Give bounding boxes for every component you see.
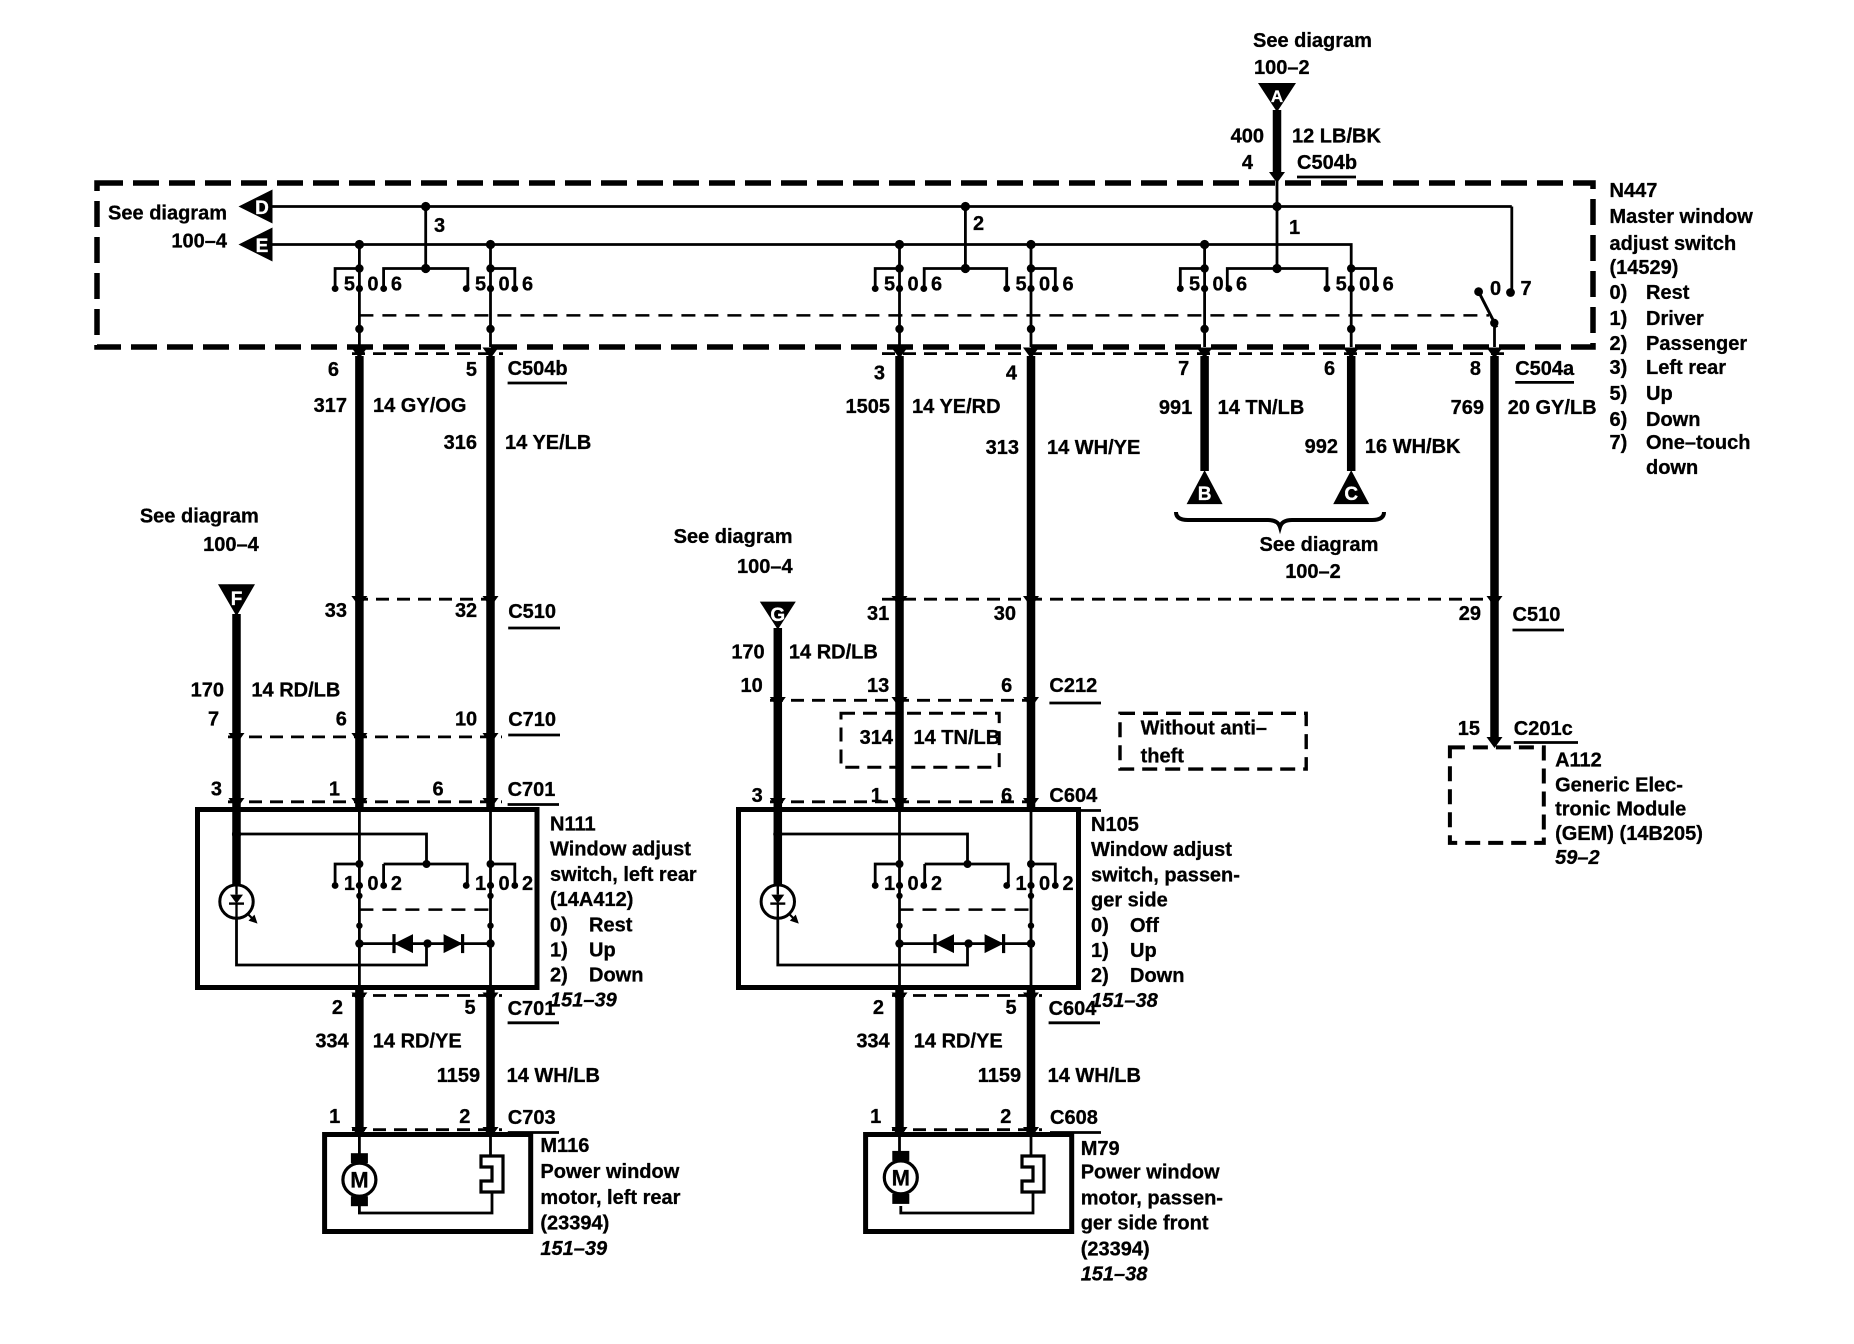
- svg-text:F: F: [231, 589, 243, 610]
- svg-text:ger side: ger side: [1091, 890, 1168, 912]
- svg-text:switch, passen-: switch, passen-: [1091, 864, 1240, 886]
- svg-text:6): 6): [1610, 409, 1628, 431]
- pin 10 C212: [741, 675, 763, 697]
- connector C604 label (top): [1049, 785, 1101, 811]
- svg-text:100–2: 100–2: [1285, 561, 1341, 583]
- svg-text:6: 6: [432, 779, 443, 801]
- svg-text:6: 6: [1324, 358, 1335, 380]
- note: see diagram 100-2 (top): [1253, 30, 1372, 79]
- power window motor M116 (box): [325, 1135, 531, 1232]
- feed wire 1 (driver): [1227, 202, 1327, 289]
- svg-text:C604: C604: [1049, 998, 1098, 1020]
- svg-text:1: 1: [329, 779, 340, 801]
- svg-text:2: 2: [1062, 873, 1073, 895]
- circuit breaker M79: [1022, 1135, 1044, 1193]
- svg-text:14 WH/YE: 14 WH/YE: [1047, 437, 1140, 459]
- svg-text:Power window: Power window: [540, 1161, 679, 1183]
- mechanical link N111 (dashed): [359, 908, 490, 911]
- svg-text:theft: theft: [1141, 746, 1185, 768]
- svg-text:151–39: 151–39: [540, 1238, 608, 1260]
- motor M79: [884, 1135, 917, 1204]
- label 1159 (right): [978, 1065, 1021, 1087]
- motor return wire M79: [901, 1192, 1033, 1213]
- svg-text:Power window: Power window: [1081, 1162, 1220, 1184]
- svg-text:5: 5: [1015, 274, 1026, 296]
- svg-text:Rest: Rest: [1646, 282, 1690, 304]
- label 14 RD/LB (G): [789, 641, 878, 663]
- svg-text:7): 7): [1610, 432, 1628, 454]
- svg-text:See diagram: See diagram: [1253, 30, 1372, 52]
- svg-text:0): 0): [1610, 282, 1628, 304]
- svg-text:2: 2: [522, 873, 533, 895]
- svg-text:D: D: [255, 198, 269, 219]
- pin 3 C604: [752, 785, 763, 807]
- svg-text:0): 0): [550, 914, 568, 936]
- label 1505: [846, 396, 891, 418]
- svg-text:14 RD/YE: 14 RD/YE: [373, 1030, 462, 1052]
- svg-text:0: 0: [367, 873, 378, 895]
- svg-text:14 RD/LB: 14 RD/LB: [789, 641, 878, 663]
- svg-text:14 WH/LB: 14 WH/LB: [1048, 1065, 1141, 1087]
- svg-text:N447: N447: [1610, 180, 1658, 202]
- svg-text:5: 5: [884, 274, 895, 296]
- connector C703 label: [508, 1107, 559, 1133]
- svg-text:5: 5: [1005, 997, 1016, 1019]
- diode pair N105: [895, 934, 1035, 953]
- svg-text:13: 13: [867, 675, 889, 697]
- label 2: [973, 213, 984, 235]
- svg-text:151–38: 151–38: [1081, 1264, 1149, 1286]
- lamp feed wire N111: [232, 829, 467, 885]
- svg-text:0: 0: [907, 274, 918, 296]
- svg-text:31: 31: [867, 603, 889, 625]
- svg-text:0: 0: [498, 873, 509, 895]
- svg-text:100–2: 100–2: [1254, 57, 1310, 79]
- pin 29 C510: [1459, 603, 1481, 625]
- connector C212 label: [1049, 675, 1101, 703]
- off-page connector D: [239, 190, 273, 224]
- svg-text:2: 2: [873, 997, 884, 1019]
- generic electronic module A112 (dashed box): [1450, 747, 1544, 843]
- svg-text:See diagram: See diagram: [674, 526, 793, 548]
- label 170 (F): [191, 679, 224, 701]
- connector C701 (top row): [228, 800, 502, 803]
- svg-text:C710: C710: [508, 709, 556, 731]
- connector C510 label (left): [508, 601, 560, 628]
- power window motor M79 (box): [866, 1135, 1072, 1232]
- svg-text:Without anti–: Without anti–: [1141, 718, 1267, 740]
- pin 4 of C504b: [1242, 152, 1254, 174]
- svg-text:1: 1: [344, 873, 355, 895]
- arrows into C608: [892, 1127, 1040, 1138]
- svg-text:100–4: 100–4: [737, 556, 793, 578]
- pin 1 C701: [329, 779, 340, 801]
- note: without anti-theft: [1120, 713, 1306, 769]
- svg-text:0: 0: [367, 274, 378, 296]
- svg-text:14 GY/OG: 14 GY/OG: [373, 395, 466, 417]
- label 1: [1289, 217, 1300, 239]
- label 991: [1159, 397, 1192, 419]
- arrows into C703: [351, 1127, 498, 1138]
- svg-text:0: 0: [907, 873, 918, 895]
- off-page connector B: [1187, 470, 1223, 505]
- svg-text:motor, left rear: motor, left rear: [540, 1187, 680, 1209]
- label 14 WH/LB (right): [1048, 1065, 1141, 1087]
- wire 400 12 LB/BK from A to C504b: [1269, 110, 1285, 269]
- svg-text:14 YE/LB: 14 YE/LB: [505, 432, 591, 454]
- svg-text:8: 8: [1470, 358, 1481, 380]
- arrows into C504a: [892, 348, 1503, 359]
- svg-text:Down: Down: [1130, 965, 1184, 987]
- svg-text:170: 170: [191, 679, 224, 701]
- svg-text:0): 0): [1091, 915, 1109, 937]
- master window adjust switch N447 (dashed enclosure): [97, 183, 1593, 347]
- svg-text:100–4: 100–4: [171, 231, 227, 253]
- switch S3 passenger (left): [872, 245, 942, 348]
- svg-text:2: 2: [1000, 1106, 1011, 1128]
- label 316: [444, 432, 477, 454]
- svg-text:2: 2: [332, 997, 343, 1019]
- junction dots on bus E: [355, 240, 1209, 249]
- svg-text:314: 314: [860, 727, 894, 749]
- wire 170 14 RD/LB (G to C212): [774, 628, 783, 700]
- connector C608 label: [1050, 1107, 1101, 1133]
- connector C701 (bottom row): [352, 994, 502, 997]
- svg-text:6: 6: [1001, 675, 1012, 697]
- connector C608 (row): [892, 1128, 1042, 1131]
- lamp return wire N105: [778, 918, 968, 965]
- connector C212 (row): [770, 699, 1040, 702]
- label 313: [986, 437, 1019, 459]
- svg-text:5: 5: [344, 274, 355, 296]
- svg-text:6: 6: [391, 274, 402, 296]
- feed wire 2 (passenger): [924, 202, 1007, 289]
- svg-text:M: M: [350, 1168, 368, 1193]
- svg-text:C504a: C504a: [1515, 358, 1575, 380]
- svg-text:1: 1: [870, 1106, 881, 1128]
- bus wire E (up/down common feed): [273, 245, 1352, 269]
- svg-text:(14A412): (14A412): [550, 889, 633, 911]
- svg-text:3: 3: [434, 215, 445, 237]
- connector C504a label: [1515, 358, 1575, 382]
- pin 6 C504b: [328, 359, 339, 381]
- svg-text:316: 316: [444, 432, 477, 454]
- connector C504b (top label): [1297, 152, 1357, 177]
- lamp (illumination) N105: [761, 885, 799, 924]
- svg-text:1: 1: [1289, 217, 1300, 239]
- svg-text:2): 2): [1091, 965, 1109, 987]
- arrows into C604 top: [770, 798, 1039, 809]
- svg-text:3): 3): [1610, 357, 1628, 379]
- label 12 LB/BK: [1292, 126, 1381, 148]
- svg-text:2: 2: [931, 873, 942, 895]
- svg-text:1): 1): [1091, 940, 1109, 962]
- wire 769 20 GY/LB to GEM: [1490, 356, 1499, 741]
- switch S1 left-rear-up/down (left): [332, 245, 402, 348]
- label 14 RD/YE (left): [373, 1030, 462, 1052]
- svg-text:Up: Up: [1646, 383, 1673, 405]
- svg-text:C510: C510: [508, 601, 556, 623]
- svg-text:C701: C701: [508, 779, 556, 801]
- arrow into GEM: [1487, 737, 1503, 748]
- pin 2 C703: [459, 1106, 470, 1128]
- connector C710 (row): [228, 736, 502, 739]
- svg-text:(23394): (23394): [1081, 1239, 1150, 1261]
- label 170 (G): [731, 641, 764, 663]
- svg-text:Generic Elec-: Generic Elec-: [1555, 774, 1683, 796]
- svg-text:(GEM) (14B205): (GEM) (14B205): [1555, 823, 1703, 845]
- svg-text:30: 30: [994, 603, 1016, 625]
- label 14 RD/LB (F): [251, 679, 340, 701]
- switch S4 passenger (right): [1003, 245, 1073, 348]
- svg-text:334: 334: [856, 1030, 890, 1052]
- connector C604 (bottom row): [892, 994, 1042, 997]
- svg-text:G: G: [770, 605, 785, 626]
- svg-text:1): 1): [550, 940, 568, 962]
- svg-text:6: 6: [931, 274, 942, 296]
- note: see diagram 100-4 (F): [140, 506, 260, 556]
- M116 text: [540, 1135, 680, 1260]
- svg-text:(23394): (23394): [540, 1213, 609, 1235]
- pin 1 C604: [871, 785, 882, 807]
- svg-text:5: 5: [464, 997, 475, 1019]
- label 992: [1305, 436, 1338, 458]
- feed wire 3 (left rear): [384, 202, 468, 289]
- svg-text:Window adjust: Window adjust: [550, 839, 691, 861]
- switch half N105 down: [1003, 810, 1073, 988]
- wire 170 14 RD/LB (F to C710): [232, 614, 241, 737]
- svg-text:7: 7: [1520, 278, 1531, 300]
- connector C510 (right segment): [882, 598, 1490, 601]
- svg-text:N111: N111: [550, 814, 596, 836]
- svg-text:C201c: C201c: [1514, 718, 1573, 740]
- svg-text:0: 0: [1359, 274, 1370, 296]
- pin 5 C604 bottom: [1005, 997, 1016, 1019]
- arrows into C504b: [351, 348, 498, 359]
- svg-text:14 TN/LB: 14 TN/LB: [914, 727, 1001, 749]
- off-page connector A: [1258, 83, 1296, 112]
- svg-text:C504b: C504b: [1297, 152, 1357, 174]
- svg-text:2: 2: [391, 873, 402, 895]
- svg-text:C: C: [1344, 484, 1358, 505]
- pin 4 C504a: [1006, 363, 1018, 385]
- switch S6 driver (right): [1324, 264, 1394, 347]
- M79 text: [1081, 1138, 1223, 1286]
- pin 31 C510: [867, 603, 889, 625]
- svg-text:6: 6: [1062, 274, 1073, 296]
- svg-text:2: 2: [973, 213, 984, 235]
- connector C604 label (bottom): [1049, 998, 1100, 1023]
- wire 992 16 WH/BK to C: [1347, 356, 1356, 471]
- pin 2 C604 bottom: [873, 997, 884, 1019]
- svg-text:5: 5: [466, 359, 477, 381]
- pin 30 C510: [994, 603, 1016, 625]
- window adjust switch N111 (box): [198, 810, 538, 988]
- svg-text:1): 1): [1610, 308, 1628, 330]
- svg-text:14 WH/LB: 14 WH/LB: [507, 1065, 600, 1087]
- pin 3 C504a: [874, 363, 885, 385]
- switch S5 driver (left): [1177, 245, 1247, 348]
- svg-text:170: 170: [731, 641, 764, 663]
- svg-text:1: 1: [329, 1106, 340, 1128]
- label circuit 314: [860, 727, 894, 749]
- svg-text:C212: C212: [1049, 675, 1097, 697]
- arrows into C510 left: [351, 596, 498, 607]
- pin 7 C710: [208, 709, 219, 731]
- switch half N111 down: [463, 810, 533, 988]
- connector C604 (top row): [770, 800, 1040, 803]
- label 14 WH/LB (left): [507, 1065, 600, 1087]
- svg-text:A112: A112: [1555, 749, 1602, 771]
- pin 10 C710: [455, 709, 477, 731]
- svg-text:Window adjust: Window adjust: [1091, 839, 1232, 861]
- pin 6 C504a: [1324, 358, 1335, 380]
- wire 314 14 TN/LB (without anti-theft) dashed box: [841, 713, 999, 767]
- svg-text:A: A: [1271, 87, 1283, 106]
- connector C510 (left segment): [355, 598, 502, 601]
- svg-text:1: 1: [884, 873, 895, 895]
- wire F C710 to N111: [232, 737, 241, 885]
- switch half N105 up: [872, 810, 942, 988]
- label 20 GY/LB: [1508, 397, 1597, 419]
- N447 legend text: [1610, 180, 1754, 479]
- connector C504b label: [508, 358, 568, 383]
- svg-text:15: 15: [1458, 718, 1480, 740]
- lamp return wire N111: [237, 918, 427, 965]
- pin 5 C701 bottom: [464, 997, 475, 1019]
- svg-text:14 RD/YE: 14 RD/YE: [914, 1030, 1003, 1052]
- svg-text:5: 5: [1189, 274, 1200, 296]
- svg-text:N105: N105: [1091, 814, 1139, 836]
- svg-text:400: 400: [1231, 126, 1264, 148]
- svg-text:100–4: 100–4: [203, 534, 259, 556]
- svg-text:7: 7: [1178, 358, 1189, 380]
- svg-text:Off: Off: [1130, 915, 1159, 937]
- svg-text:Driver: Driver: [1646, 308, 1704, 330]
- svg-text:1: 1: [1015, 873, 1026, 895]
- svg-text:3: 3: [752, 785, 763, 807]
- label circuit 400: [1231, 126, 1264, 148]
- svg-text:10: 10: [455, 709, 477, 731]
- svg-text:B: B: [1198, 484, 1212, 505]
- svg-text:2: 2: [459, 1106, 470, 1128]
- svg-text:Down: Down: [589, 965, 643, 987]
- pin 8 C504a: [1470, 358, 1481, 380]
- svg-text:ger side front: ger side front: [1081, 1213, 1209, 1235]
- motor return wire M116: [359, 1192, 492, 1213]
- N111 text: [550, 814, 697, 1012]
- svg-text:One–touch: One–touch: [1646, 432, 1750, 454]
- off-page connector C: [1333, 470, 1369, 505]
- svg-text:6: 6: [522, 274, 533, 296]
- svg-text:C703: C703: [508, 1107, 556, 1129]
- svg-text:6: 6: [1001, 785, 1012, 807]
- svg-text:M: M: [892, 1165, 910, 1190]
- label 14 YE/RD: [912, 396, 1001, 418]
- label 334 (left): [315, 1030, 349, 1052]
- pin 6 C710: [336, 709, 347, 731]
- pin 15 C201c: [1458, 718, 1480, 740]
- svg-text:Down: Down: [1646, 409, 1700, 431]
- svg-text:0: 0: [1039, 274, 1050, 296]
- label 16 WH/BK: [1365, 436, 1461, 458]
- svg-text:10: 10: [741, 675, 763, 697]
- one-touch-down switch: [1474, 207, 1515, 348]
- svg-text:C608: C608: [1050, 1107, 1098, 1129]
- label 769: [1451, 397, 1484, 419]
- A112 GEM text: [1555, 749, 1703, 869]
- svg-text:14 RD/LB: 14 RD/LB: [251, 679, 340, 701]
- label 3: [434, 215, 445, 237]
- motor M116: [343, 1135, 376, 1207]
- svg-text:14 TN/LB: 14 TN/LB: [1218, 397, 1305, 419]
- pin 7 C504a: [1178, 358, 1189, 380]
- svg-text:0: 0: [1213, 274, 1224, 296]
- lamp feed wire N105: [773, 829, 1008, 885]
- pin 6 C701: [432, 779, 443, 801]
- svg-text:M79: M79: [1081, 1138, 1120, 1160]
- svg-text:33: 33: [325, 600, 347, 622]
- wire G C212 to N105: [774, 700, 783, 885]
- pin 1 C703: [329, 1106, 340, 1128]
- svg-text:See diagram: See diagram: [140, 506, 259, 528]
- label 14 WH/YE: [1047, 437, 1140, 459]
- connector C504b (row): [352, 352, 503, 355]
- svg-text:switch, left rear: switch, left rear: [550, 864, 697, 886]
- svg-text:5: 5: [475, 274, 486, 296]
- connector C703 (row): [352, 1128, 502, 1131]
- svg-text:334: 334: [315, 1030, 349, 1052]
- switch S2 left-rear (right): [463, 245, 533, 348]
- bus wire D (driver/one-touch feed): [273, 205, 1512, 208]
- svg-text:Up: Up: [1130, 940, 1157, 962]
- svg-text:4: 4: [1242, 152, 1254, 174]
- wire N105 pin2 to motor: [895, 988, 904, 1135]
- note: see diagram 100-2 (B/C): [1260, 534, 1379, 583]
- svg-text:20 GY/LB: 20 GY/LB: [1508, 397, 1597, 419]
- pin 5 C504b: [466, 359, 477, 381]
- connector C701 label (top): [508, 779, 559, 805]
- pin 13 C212: [867, 675, 889, 697]
- label 14 RD/YE (right): [914, 1030, 1003, 1052]
- note: see diagram 100-4 (D/E): [108, 203, 228, 253]
- svg-text:0: 0: [1039, 873, 1050, 895]
- svg-text:adjust switch: adjust switch: [1610, 233, 1737, 255]
- connector C510 label (right): [1513, 604, 1565, 630]
- pin 32 C510: [455, 600, 477, 622]
- svg-text:E: E: [256, 236, 269, 257]
- arrows into C604 bottom: [892, 993, 1040, 1004]
- pin 1 C608: [870, 1106, 881, 1128]
- off-page connector G: [760, 602, 796, 630]
- pin 6 C212: [1001, 675, 1012, 697]
- svg-text:down: down: [1646, 457, 1698, 479]
- label 14 TN/LB: [1218, 397, 1305, 419]
- svg-text:(14529): (14529): [1610, 257, 1679, 279]
- label 317: [314, 395, 347, 417]
- wire N111 pin2 to motor: [355, 988, 364, 1135]
- svg-text:7: 7: [208, 709, 219, 731]
- svg-text:motor, passen-: motor, passen-: [1081, 1188, 1223, 1210]
- svg-text:6: 6: [328, 359, 339, 381]
- svg-text:3: 3: [874, 363, 885, 385]
- label 14 TN/LB (314): [914, 727, 1001, 749]
- svg-text:1: 1: [871, 785, 882, 807]
- svg-text:Up: Up: [589, 940, 616, 962]
- diode pair N111: [355, 934, 495, 953]
- wire 313 14 WH/YE: [1027, 356, 1036, 810]
- label 1159 (left): [437, 1065, 480, 1087]
